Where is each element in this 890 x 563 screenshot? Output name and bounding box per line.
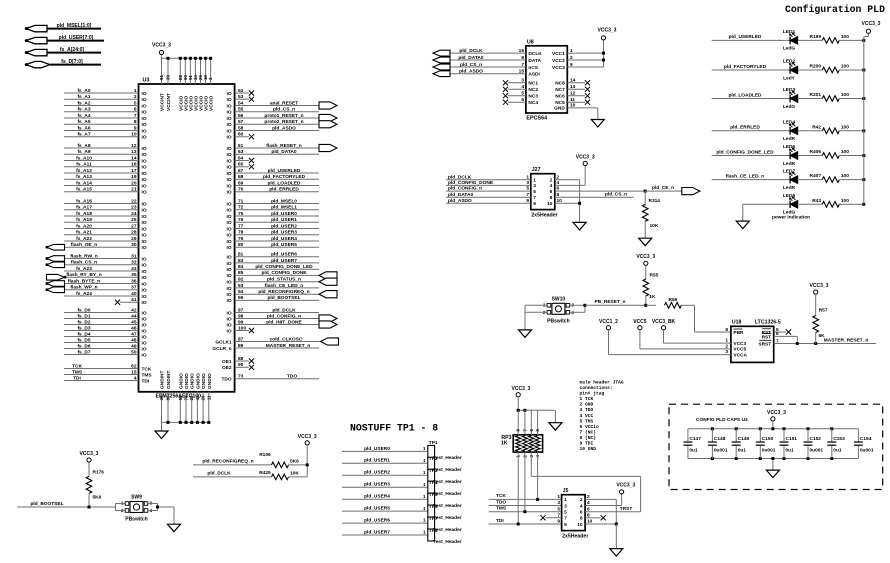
header J27 body	[531, 167, 558, 218]
J5 pin 1	[557, 494, 567, 503]
U3 pin 19 fs_A13	[64, 174, 147, 183]
svg-text:68: 68	[238, 174, 244, 180]
U3 pin 55 pld_CS_n	[227, 107, 319, 116]
svg-text:VCCA: VCCA	[733, 352, 747, 358]
svg-text:LTC1326-5: LTC1326-5	[755, 320, 781, 326]
svg-text:flash_WP_n: flash_WP_n	[70, 285, 97, 291]
svg-text:CONFIG PLD CAPS U3: CONFIG PLD CAPS U3	[696, 417, 748, 423]
svg-text:flash_OE_n: flash_OE_n	[71, 242, 97, 248]
svg-text:LedR: LedR	[783, 136, 796, 142]
svg-text:2: 2	[580, 497, 583, 503]
svg-text:pld_MSEL0: pld_MSEL0	[271, 198, 297, 204]
svg-text:fs_D3: fs_D3	[77, 325, 90, 331]
LED LED2 LedY with resistor R200 (pld_FACTORYLED)	[712, 59, 866, 82]
svg-text:pld_CONFIG_DONE: pld_CONFIG_DONE	[448, 180, 494, 186]
U3 pin 42 fs_D0	[64, 307, 147, 316]
svg-text:1: 1	[570, 48, 573, 54]
svg-text:1: 1	[423, 482, 426, 487]
svg-text:3: 3	[725, 349, 728, 355]
svg-text:pld_USER7: pld_USER7	[364, 529, 390, 535]
ground (J27)	[573, 222, 586, 230]
svg-text:9 TDI: 9 TDI	[580, 441, 594, 447]
svg-text:VCC3_3: VCC3_3	[152, 43, 171, 49]
U3 pin 73 TDO	[221, 374, 319, 383]
svg-text:fs_A8: fs_A8	[77, 143, 90, 149]
svg-text:LED4: LED4	[783, 120, 796, 126]
svg-text:TDI: TDI	[73, 375, 81, 381]
svg-text:C151: C151	[786, 436, 798, 442]
U3 pin 62 TCK	[64, 363, 152, 372]
svg-text:IO: IO	[142, 177, 147, 183]
J27 pin 4 VCC	[555, 166, 585, 186]
svg-text:6: 6	[550, 189, 553, 195]
svg-text:IO: IO	[142, 220, 147, 226]
svg-text:29: 29	[131, 236, 137, 242]
U3 pin 40 fs_A24	[64, 291, 147, 300]
svg-text:fs_A23: fs_A23	[76, 266, 92, 272]
test point TP4 (pld_USER3)	[342, 480, 462, 497]
svg-text:25: 25	[131, 217, 137, 223]
caps bottom rail	[688, 457, 859, 460]
svg-text:IO: IO	[227, 280, 232, 286]
U8 pin 6 NC4 no-connect	[503, 97, 538, 106]
U3 pin 60 no-connect	[227, 132, 255, 141]
svg-text:87: 87	[238, 336, 244, 342]
J5 pin 7	[557, 512, 567, 521]
U8 pin 5 NC3 no-connect	[503, 91, 538, 100]
svg-text:nCS: nCS	[528, 65, 538, 71]
J27 pin 8 net pld_CS_n	[555, 192, 634, 198]
svg-text:94: 94	[238, 289, 244, 295]
svg-text:IO: IO	[227, 152, 232, 158]
U3 pin 63 pld_DATA0	[227, 149, 319, 158]
svg-text:IO: IO	[227, 110, 232, 116]
title Configuration PLD	[785, 4, 885, 15]
svg-text:SW9: SW9	[131, 495, 142, 501]
svg-text:63: 63	[238, 149, 244, 155]
U3 pin 56 proto1_RESET_n	[227, 113, 337, 122]
LED LED6 LedR with resistor R406 (pld_CONFIG_DONE_LED)	[712, 144, 866, 167]
svg-text:4: 4	[134, 375, 137, 381]
svg-text:17: 17	[131, 168, 137, 174]
U3 pin 23 fs_A17	[64, 205, 147, 214]
svg-text:VCC3_3: VCC3_3	[80, 451, 99, 457]
svg-text:DCLK: DCLK	[528, 51, 542, 57]
power VCC3_3 (J5)	[616, 483, 635, 494]
power VCC3_3 (R55)	[636, 254, 655, 265]
capacitor C153 0u1	[827, 429, 845, 459]
svg-text:12: 12	[131, 143, 137, 149]
svg-text:pld_USER0: pld_USER0	[364, 446, 390, 452]
svg-text:1: 1	[557, 494, 560, 500]
U3 pin 9 fs_A6	[64, 125, 147, 134]
svg-text:2: 2	[570, 55, 573, 61]
svg-text:pld_USER2: pld_USER2	[271, 223, 297, 229]
svg-text:fs_D7: fs_D7	[77, 349, 90, 355]
svg-text:VCC3_3: VCC3_3	[810, 283, 829, 289]
svg-text:flash_CE_LED_n: flash_CE_LED_n	[265, 283, 303, 289]
svg-text:fs_A22: fs_A22	[76, 236, 92, 242]
svg-text:10: 10	[587, 519, 593, 525]
svg-text:pld_USERLED: pld_USERLED	[729, 34, 762, 40]
note NOSTUFF TP1 - 8	[350, 423, 438, 434]
svg-text:VCC3_3: VCC3_3	[298, 434, 317, 440]
svg-text:R56: R56	[668, 297, 677, 303]
svg-text:flash_CE_LED_n: flash_CE_LED_n	[726, 173, 764, 179]
svg-text:TMS: TMS	[142, 372, 153, 378]
svg-text:90: 90	[238, 362, 244, 368]
svg-text:R42: R42	[812, 124, 821, 130]
svg-text:10: 10	[131, 132, 137, 138]
svg-text:IO: IO	[227, 328, 232, 334]
svg-text:3: 3	[521, 78, 524, 84]
svg-text:89: 89	[238, 343, 244, 349]
svg-text:100: 100	[841, 34, 849, 40]
svg-text:15: 15	[519, 69, 525, 75]
dashed box CONFIG PLD CAPS	[669, 404, 883, 489]
svg-text:8: 8	[134, 119, 137, 125]
svg-text:47: 47	[131, 331, 137, 337]
svg-text:TP3: TP3	[429, 468, 438, 474]
svg-text:C154: C154	[860, 436, 872, 442]
svg-text:48: 48	[131, 337, 137, 343]
svg-text:9: 9	[533, 201, 536, 207]
svg-text:Configuration PLD: Configuration PLD	[785, 4, 885, 15]
svg-text:TDO: TDO	[287, 374, 297, 380]
svg-text:10: 10	[547, 201, 553, 207]
svg-text:IO: IO	[142, 334, 147, 340]
SW10 left wires to ground	[525, 305, 547, 330]
svg-text:pld_USER[7:0]: pld_USER[7:0]	[59, 35, 94, 41]
svg-text:fs_A21: fs_A21	[76, 230, 92, 236]
svg-text:9: 9	[564, 522, 567, 528]
svg-text:1: 1	[533, 178, 536, 184]
svg-text:IO: IO	[227, 298, 232, 304]
svg-text:R406: R406	[810, 149, 822, 155]
svg-text:GNDIO: GNDIO	[178, 373, 184, 389]
svg-text:IO: IO	[227, 158, 232, 164]
svg-text:6 VCCio: 6 VCCio	[580, 424, 600, 430]
svg-text:4: 4	[550, 183, 553, 189]
U3 pin 4 TDI	[64, 375, 150, 384]
svg-text:LedG: LedG	[783, 46, 796, 52]
svg-text:IO: IO	[227, 122, 232, 128]
J5 pin 6 TRST	[585, 506, 641, 512]
svg-text:8: 8	[550, 195, 553, 201]
svg-text:1: 1	[423, 530, 426, 535]
svg-text:59: 59	[178, 395, 183, 400]
capacitor C150 0u001	[756, 429, 776, 459]
svg-text:IO: IO	[142, 165, 147, 171]
svg-text:pld_USER6: pld_USER6	[364, 518, 390, 524]
svg-text:IO: IO	[142, 294, 147, 300]
U3 pin 6 fs_A3	[64, 107, 147, 116]
J5 pin 10 inside	[577, 522, 583, 528]
net TRST (RP3 to J5 pin 6)	[531, 452, 640, 512]
svg-text:fs_A1: fs_A1	[77, 94, 90, 100]
U3 pin 8 fs_A5	[64, 119, 147, 128]
svg-text:OE2: OE2	[222, 365, 232, 371]
svg-text:2: 2	[134, 94, 137, 100]
U3 pin 45 fs_D2	[64, 319, 147, 328]
RP3 top rail	[517, 397, 556, 423]
U3 pin 44 fs_D1	[64, 313, 147, 322]
svg-text:VCCIO: VCCIO	[183, 96, 189, 111]
svg-text:SRST: SRST	[758, 341, 771, 347]
svg-text:35: 35	[131, 272, 137, 278]
svg-text:IO: IO	[142, 171, 147, 177]
J27 pin 2/10 ground net	[555, 174, 581, 222]
svg-text:2 GND: 2 GND	[580, 402, 594, 408]
svg-text:R176: R176	[93, 470, 105, 476]
svg-text:1: 1	[526, 174, 529, 180]
svg-text:VCC3: VCC3	[733, 341, 746, 347]
U3 pin 1 fs_A0	[64, 88, 147, 97]
svg-text:TP1: TP1	[429, 440, 438, 446]
svg-text:70: 70	[238, 187, 244, 193]
svg-text:58: 58	[238, 125, 244, 131]
svg-text:C148: C148	[714, 436, 726, 442]
capacitor C147 0u1	[683, 429, 701, 459]
svg-text:92: 92	[238, 277, 244, 283]
svg-text:pld_USER7: pld_USER7	[271, 258, 297, 264]
U3 pin 64 no-connect	[227, 155, 255, 164]
svg-text:U18: U18	[732, 320, 742, 326]
svg-text:SW10: SW10	[552, 296, 566, 302]
svg-text:pld_DCLK: pld_DCLK	[448, 174, 472, 180]
test point TP2 (pld_USER1)	[342, 456, 462, 473]
U3 pin 99 pld_INIT_DONE	[227, 319, 337, 328]
svg-text:OE1: OE1	[222, 359, 232, 365]
svg-text:IO: IO	[142, 328, 147, 334]
svg-text:IO: IO	[142, 352, 147, 358]
svg-text:PBR: PBR	[733, 330, 744, 336]
svg-text:R43: R43	[812, 198, 821, 204]
U8 pin 16 DCLK (pld_DCLK)	[433, 48, 542, 57]
svg-text:fs_D[7:0]: fs_D[7:0]	[61, 59, 83, 65]
svg-text:13: 13	[131, 149, 137, 155]
test point TP7 (pld_USER6)	[342, 516, 462, 533]
svg-text:21: 21	[131, 187, 137, 193]
svg-text:NC4: NC4	[528, 100, 538, 106]
svg-text:C149: C149	[738, 436, 750, 442]
svg-text:C150: C150	[762, 436, 774, 442]
U3 pin 75 pld_USER0	[227, 211, 319, 220]
U3 pin 100 no-connect	[227, 325, 255, 334]
svg-text:1K: 1K	[649, 294, 656, 300]
svg-text:1: 1	[423, 494, 426, 499]
svg-text:IO: IO	[227, 255, 232, 261]
svg-text:pld_DATA0: pld_DATA0	[448, 192, 473, 198]
ground (J5)	[610, 549, 623, 557]
svg-text:50: 50	[131, 349, 137, 355]
svg-text:TDI: TDI	[496, 518, 504, 524]
U3 pin 72 pld_MSEL1	[227, 205, 319, 214]
svg-text:fs_A15: fs_A15	[76, 187, 92, 193]
svg-text:pld_CS_n: pld_CS_n	[273, 107, 295, 113]
power VCC3_3 (U8)	[598, 28, 617, 40]
U3 pin 71 pld_MSEL0	[227, 198, 319, 207]
U3 pin 96 pld_BOOTSEL	[227, 295, 319, 304]
U3 pin 49 fs_D6	[64, 343, 147, 352]
U3 GND pins	[159, 371, 213, 424]
svg-text:39: 39	[166, 75, 171, 80]
U8 pin 3 NC1 no-connect	[503, 78, 538, 87]
svg-text:23: 23	[131, 205, 137, 211]
U3 pin 88 OE1 no-connect	[222, 356, 254, 365]
svg-text:GNDIO: GNDIO	[195, 373, 201, 389]
svg-text:pld_MSEL1: pld_MSEL1	[271, 205, 297, 211]
U3 pin 10 fs_A7	[64, 132, 147, 141]
svg-text:pld_ASDO: pld_ASDO	[272, 125, 296, 131]
J5 pin 4 inside	[580, 503, 583, 509]
J27 pin 5 (pld_CONFIG_n)	[446, 186, 536, 195]
svg-text:PBswitch: PBswitch	[547, 318, 570, 324]
bus pld_MSEL[1:0]	[25, 23, 101, 32]
svg-text:75: 75	[238, 211, 244, 217]
svg-text:fs_A12: fs_A12	[76, 168, 92, 174]
U3 pin 47 fs_D4	[64, 331, 147, 340]
svg-text:15: 15	[131, 369, 137, 375]
svg-text:IO: IO	[142, 316, 147, 322]
power VCC3_3 (R176)	[80, 451, 99, 462]
svg-text:42: 42	[131, 307, 137, 313]
J5 pin 4 VCC	[585, 494, 622, 506]
svg-text:20: 20	[131, 180, 137, 186]
J27 pin 3 (pld_CONFIG_DONE)	[446, 180, 536, 189]
ground (SW9)	[168, 524, 181, 532]
svg-text:8: 8	[557, 192, 560, 198]
svg-text:9: 9	[134, 125, 137, 131]
U3 pin 37 flash_WP_n	[46, 285, 147, 294]
U3 pin 14 fs_A10	[64, 155, 147, 164]
U3 pin 70 pld_ERRLED	[227, 187, 319, 196]
svg-text:flash_CS_n: flash_CS_n	[71, 260, 97, 266]
J5 pin 3	[557, 500, 567, 509]
SW9 right bar to ground	[148, 504, 174, 525]
svg-text:5: 5	[521, 91, 524, 97]
svg-text:NC3: NC3	[528, 94, 538, 100]
SW10 right bar / PB_RESET_n	[570, 299, 648, 313]
svg-text:VCCIO: VCCIO	[209, 96, 215, 111]
svg-text:IO: IO	[142, 239, 147, 245]
svg-text:31: 31	[131, 253, 137, 259]
svg-text:46: 46	[131, 325, 137, 331]
svg-text:TDO: TDO	[221, 377, 231, 383]
U3 pin 28 fs_A21	[64, 230, 147, 239]
svg-text:pld_FACTORYLED: pld_FACTORYLED	[724, 64, 767, 70]
svg-text:connections:: connections:	[580, 385, 613, 391]
svg-text:12: 12	[570, 91, 576, 97]
svg-text:3: 3	[557, 500, 560, 506]
svg-text:IO: IO	[227, 286, 232, 292]
svg-text:anal_RESET: anal_RESET	[270, 100, 298, 106]
svg-text:6: 6	[776, 331, 779, 337]
svg-text:5: 5	[526, 186, 529, 192]
svg-text:LedY: LedY	[783, 75, 796, 81]
svg-text:IO: IO	[227, 201, 232, 207]
svg-text:TMS: TMS	[496, 506, 507, 512]
svg-text:26: 26	[201, 395, 206, 400]
svg-text:pld_CONFIG_n: pld_CONFIG_n	[448, 186, 482, 192]
J27 pin 8 inside	[550, 195, 553, 201]
svg-text:IO: IO	[227, 146, 232, 152]
SW9 left bar	[116, 504, 126, 511]
U3 pin 78 pld_USER3	[227, 230, 319, 239]
svg-text:flash_RY_BY_n: flash_RY_BY_n	[66, 272, 101, 278]
svg-text:VCC3_3: VCC3_3	[862, 21, 881, 27]
svg-text:pld_USER5: pld_USER5	[364, 506, 390, 512]
svg-text:IO: IO	[142, 346, 147, 352]
svg-text:pld_USER2: pld_USER2	[364, 470, 390, 476]
svg-text:VCC3_3: VCC3_3	[598, 28, 617, 34]
power VCC5 to U18 VCC5	[633, 319, 746, 353]
svg-text:LED6: LED6	[783, 144, 796, 150]
svg-text:VCCIO: VCCIO	[193, 96, 199, 111]
svg-text:81: 81	[238, 252, 244, 258]
svg-text:fs_A20: fs_A20	[76, 223, 92, 229]
svg-text:72: 72	[238, 205, 244, 211]
svg-text:IO: IO	[227, 267, 232, 273]
svg-text:LED7: LED7	[783, 168, 796, 174]
svg-text:IO: IO	[142, 233, 147, 239]
svg-text:100: 100	[841, 173, 849, 179]
svg-text:VCC5: VCC5	[633, 319, 647, 325]
svg-text:TDI: TDI	[142, 378, 150, 384]
svg-text:NC1: NC1	[528, 81, 538, 87]
svg-text:pld_CONFIG_DONE_LED: pld_CONFIG_DONE_LED	[716, 149, 774, 155]
svg-text:fs_A11: fs_A11	[76, 162, 92, 168]
svg-text:VCC3_3: VCC3_3	[767, 410, 786, 416]
svg-text:IO: IO	[227, 91, 232, 97]
U3 pin 31 flash_RW_n	[46, 253, 147, 262]
resistor R55 1K	[643, 265, 659, 307]
svg-text:pld_LOADLED: pld_LOADLED	[267, 180, 301, 186]
U3 pin 68 pld_FACTORYLED	[227, 174, 319, 183]
U3 pin 90 OE2 no-connect	[222, 362, 254, 371]
svg-text:IO: IO	[142, 288, 147, 294]
header J5 body	[562, 488, 589, 539]
svg-text:IO: IO	[142, 110, 147, 116]
svg-text:IO: IO	[142, 152, 147, 158]
svg-text:0u001: 0u001	[810, 448, 824, 454]
svg-text:98: 98	[238, 313, 244, 319]
svg-text:VCCINT: VCCINT	[160, 93, 166, 111]
svg-text:pld_BOOTSEL: pld_BOOTSEL	[30, 501, 63, 507]
U8 pin 8 DATA (pld_DATA0)	[433, 55, 542, 64]
svg-text:J27: J27	[532, 167, 541, 173]
svg-text:5: 5	[557, 506, 560, 512]
svg-text:pld_MSEL[1:0]: pld_MSEL[1:0]	[57, 23, 92, 29]
J5 pin 6 inside	[580, 510, 583, 516]
svg-text:pld_USER0: pld_USER0	[271, 211, 297, 217]
test point TP3 (pld_USER2)	[342, 468, 462, 485]
U3 pin 61 flash_RESET_n	[227, 143, 337, 152]
U8 pin 14 NC8 no-connect	[555, 78, 590, 87]
svg-text:fs_D5: fs_D5	[77, 337, 90, 343]
svg-text:78: 78	[238, 230, 244, 236]
svg-text:C152: C152	[810, 436, 822, 442]
svg-text:7: 7	[564, 516, 567, 522]
svg-text:NC2: NC2	[528, 87, 538, 93]
svg-text:proto2_RESET_n: proto2_RESET_n	[264, 119, 303, 125]
svg-text:GCLK1: GCLK1	[215, 339, 232, 345]
svg-text:10 GND: 10 GND	[580, 446, 597, 452]
svg-text:pin# jtag: pin# jtag	[580, 391, 605, 397]
svg-text:IO: IO	[227, 226, 232, 232]
ground (caps)	[766, 457, 779, 478]
svg-text:C153: C153	[833, 436, 845, 442]
